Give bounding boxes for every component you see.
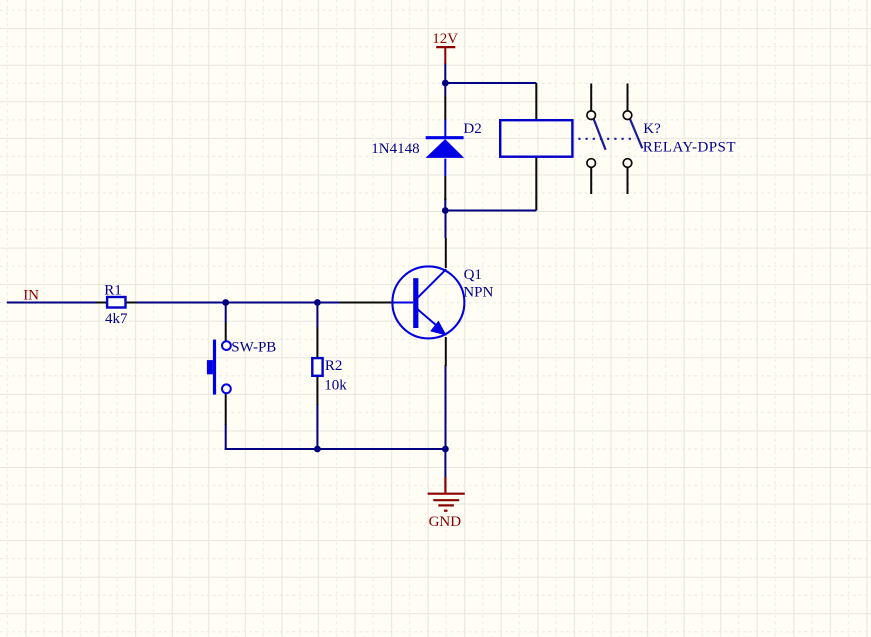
svg-text:10k: 10k	[324, 377, 347, 393]
svg-text:IN: IN	[23, 287, 39, 303]
svg-text:K?: K?	[643, 121, 661, 137]
svg-text:12V: 12V	[432, 31, 458, 47]
svg-text:GND: GND	[429, 514, 462, 530]
svg-text:SW-PB: SW-PB	[231, 339, 276, 355]
svg-text:D2: D2	[463, 121, 481, 137]
svg-text:R1: R1	[104, 283, 122, 299]
svg-text:R2: R2	[325, 358, 343, 374]
svg-text:RELAY-DPST: RELAY-DPST	[643, 140, 736, 156]
svg-text:Q1: Q1	[464, 267, 482, 283]
svg-text:4k7: 4k7	[105, 311, 128, 327]
svg-text:1N4148: 1N4148	[371, 141, 419, 157]
svg-text:NPN: NPN	[463, 284, 493, 300]
